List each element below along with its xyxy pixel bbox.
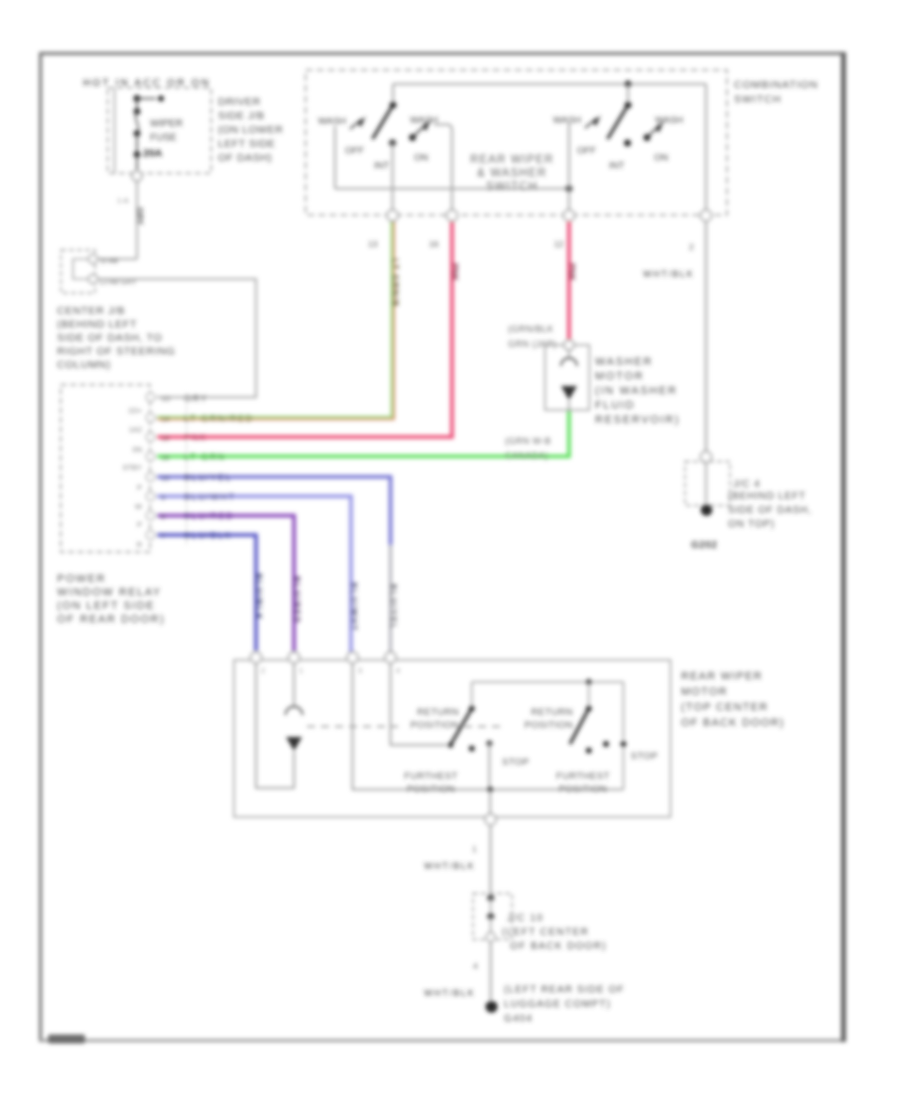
svg-text:G404: G404 <box>504 1014 533 1025</box>
svg-text:WASHER: WASHER <box>595 356 653 368</box>
label CENTER J/B <box>57 305 175 371</box>
svg-text:WASH: WASH <box>553 115 581 126</box>
svg-text:(LEFT CENTER: (LEFT CENTER <box>502 927 589 938</box>
svg-text:1A2: 1A2 <box>129 425 142 434</box>
svg-text:(ON LEFT SIDE: (ON LEFT SIDE <box>57 600 155 612</box>
node wash junction <box>566 185 573 192</box>
pin 12 <box>564 210 575 221</box>
svg-text:LT GRN/B: LT GRN/B <box>390 258 400 307</box>
svg-text:13: 13 <box>368 239 378 249</box>
svg-text:BLU/RED: BLU/RED <box>184 511 234 521</box>
svg-text:PNK: PNK <box>567 263 577 282</box>
svg-text:OF REAR DOOR): OF REAR DOOR) <box>57 614 165 626</box>
svg-text:LEFT SIDE: LEFT SIDE <box>218 138 275 150</box>
svg-text:GRN (JAP): GRN (JAP) <box>508 339 557 349</box>
label (GRN CANADA) bottom <box>505 436 551 461</box>
svg-text:STOP: STOP <box>502 757 529 768</box>
svg-text:POSITION: POSITION <box>407 784 456 795</box>
svg-text:1D: 1D <box>161 394 171 403</box>
switch S4 park (right) <box>570 682 626 790</box>
pin 3 (motor) <box>347 652 358 663</box>
svg-text:CANADA): CANADA) <box>505 451 548 461</box>
svg-text:OFF: OFF <box>577 146 596 157</box>
svg-text:PNK: PNK <box>450 263 460 282</box>
svg-text:SWITCH: SWITCH <box>486 181 538 193</box>
svg-text:4: 4 <box>473 961 478 971</box>
svg-text:R: R <box>137 540 143 549</box>
svg-text:1I-A8: 1I-A8 <box>100 256 118 265</box>
connector J/C 4 dashed <box>685 462 730 506</box>
svg-text:(TOP CENTER: (TOP CENTER <box>681 702 768 714</box>
svg-text:MOTOR: MOTOR <box>595 371 644 383</box>
svg-text:2: 2 <box>689 242 694 252</box>
svg-text:20A: 20A <box>143 148 163 160</box>
svg-text:STBY: STBY <box>122 463 142 472</box>
pin 16 <box>447 210 458 221</box>
svg-text:BLU/WHT: BLU/WHT <box>184 492 236 502</box>
svg-text:BLU/BLK: BLU/BLK <box>184 531 232 541</box>
svg-text:RETURN: RETURN <box>417 707 459 718</box>
fuse WIPER 20A <box>134 99 183 172</box>
label REAR WIPER MOTOR <box>681 671 785 730</box>
svg-text:POSITION: POSITION <box>410 720 459 731</box>
wire PNK to washer motor <box>567 221 577 341</box>
svg-text:FLUID: FLUID <box>595 400 635 412</box>
pin numbers <box>261 668 400 675</box>
svg-text:RIGHT OF STEERING: RIGHT OF STEERING <box>57 346 175 358</box>
svg-text:1D+: 1D+ <box>128 406 143 415</box>
svg-text:0N: 0N <box>132 445 142 454</box>
svg-text:BLU/WHT: BLU/WHT <box>349 582 359 632</box>
mechanical link dashes <box>307 726 506 728</box>
ground G202 <box>701 504 713 516</box>
svg-text:INT: INT <box>609 161 625 172</box>
svg-text:POWER: POWER <box>57 573 106 585</box>
wire LT GRN (washer motor return) <box>157 410 569 462</box>
svg-text:GRY: GRY <box>184 394 208 404</box>
svg-text:ON: ON <box>414 153 428 164</box>
wire wash rail <box>335 188 569 190</box>
wire BLU-YEL (to wiper motor pin 4) <box>157 473 399 655</box>
svg-text:WASH: WASH <box>318 116 346 127</box>
pin 2 <box>701 210 712 221</box>
label REAR WIPER & WASHER SWITCH <box>470 154 554 193</box>
wire WHT-BLK right side <box>643 221 706 452</box>
svg-text:OFF: OFF <box>345 146 364 157</box>
wire GRY from connector to J/B <box>97 279 256 397</box>
svg-text:OF BACK DOOR): OF BACK DOOR) <box>681 717 785 729</box>
svg-text:16: 16 <box>429 239 439 249</box>
wire BLU-RED (to wiper motor pin 2) <box>157 511 302 654</box>
switch S2 washer (right group) <box>553 84 683 212</box>
label COMBINATION SWITCH <box>734 79 818 106</box>
wire stop output <box>489 790 491 816</box>
svg-text:FURTHEST: FURTHEST <box>404 771 458 782</box>
svg-text:SIDE OF DASH,: SIDE OF DASH, <box>728 505 812 516</box>
svg-text:WHT/BLK: WHT/BLK <box>424 988 475 998</box>
svg-text:(ON LOWER: (ON LOWER <box>218 124 283 136</box>
svg-text:ON: ON <box>654 153 668 164</box>
label WASHER MOTOR <box>595 356 680 426</box>
svg-text:SWITCH: SWITCH <box>734 94 781 106</box>
pin 4 (motor) <box>385 652 396 663</box>
switch S1 wiper (left group) <box>318 84 452 212</box>
svg-text:BLU/YEL: BLU/YEL <box>389 584 399 631</box>
label ground location <box>504 985 625 1025</box>
label POWER WINDOW RELAY <box>57 573 165 626</box>
wire WHT-BLK to J/C 10 <box>424 825 491 893</box>
svg-text:BLU/BLK: BLU/BLK <box>254 573 264 621</box>
wire LT GRN-RED (to switch pin 13) <box>157 219 400 424</box>
svg-text:18: 18 <box>161 434 169 443</box>
svg-text:P: P <box>137 520 142 529</box>
svg-text:DRIVER: DRIVER <box>218 96 261 108</box>
svg-text:G202: G202 <box>691 540 717 551</box>
pin washer motor <box>564 340 574 350</box>
wire pin4 to park contact <box>391 662 448 745</box>
pin 2 (motor) <box>289 652 300 663</box>
motor M1 washer <box>561 349 577 412</box>
wire pin3 to stop rail <box>353 662 624 790</box>
svg-text:POSITION: POSITION <box>524 720 573 731</box>
wire row GRY labels <box>161 394 208 404</box>
pin 1 (motor) <box>251 652 262 663</box>
svg-text:WIPER: WIPER <box>150 119 183 130</box>
wire top rail <box>393 83 706 85</box>
svg-text:RETURN: RETURN <box>531 707 573 718</box>
svg-text:BLU/RED: BLU/RED <box>292 576 302 624</box>
wire BLU-BLK (to wiper motor pin 1) <box>157 531 264 652</box>
svg-text:4: 4 <box>396 668 400 675</box>
center J/B dashed box <box>61 385 150 552</box>
svg-text:& WASHER: & WASHER <box>477 168 547 180</box>
node park rail junction <box>586 679 592 685</box>
svg-text:(LEFT REAR SIDE OF: (LEFT REAR SIDE OF <box>504 985 625 996</box>
svg-text:OF BACK DOOR): OF BACK DOOR) <box>510 941 607 952</box>
J/B pins <box>146 393 155 539</box>
svg-text:14: 14 <box>161 415 169 424</box>
svg-text:9: 9 <box>161 493 165 502</box>
svg-text:RESERVOIR): RESERVOIR) <box>595 414 680 426</box>
connector strip line <box>186 393 188 545</box>
labels park switch <box>404 707 658 795</box>
svg-text:FURTHEST: FURTHEST <box>556 771 610 782</box>
svg-text:J/C 10: J/C 10 <box>507 913 544 924</box>
driver side J/B dashed box <box>108 88 212 174</box>
svg-text:(GRN/BLK: (GRN/BLK <box>508 324 554 334</box>
ground G404 <box>486 1001 498 1013</box>
svg-text:7: 7 <box>161 532 165 541</box>
svg-text:(IN WASHER: (IN WASHER <box>595 385 678 397</box>
svg-text:8: 8 <box>161 512 165 521</box>
pin motor output <box>485 814 496 825</box>
wire PNK (to switch pin 16) <box>157 219 460 443</box>
wire into ground <box>705 462 707 504</box>
node rail junction <box>625 81 632 88</box>
label J/C 10 <box>502 913 607 952</box>
svg-text:OF DASH): OF DASH) <box>218 152 272 164</box>
svg-text:WHT/BLK: WHT/BLK <box>424 861 475 871</box>
washer motor box <box>545 345 589 410</box>
rear wiper motor box <box>234 660 671 817</box>
wire BLU-WHT (to wiper motor pin 3) <box>157 492 359 654</box>
svg-text:P: P <box>137 483 142 492</box>
svg-text:MOTOR: MOTOR <box>681 686 728 698</box>
svg-text:12: 12 <box>554 239 564 249</box>
svg-text:INT: INT <box>374 161 390 172</box>
motor M2 rear wiper <box>256 662 303 788</box>
combination switch dashed box <box>306 70 727 215</box>
svg-text:10: 10 <box>161 474 169 483</box>
svg-text:COMBINATION: COMBINATION <box>734 79 818 91</box>
wire rail to pin 2 <box>705 84 707 212</box>
svg-text:J/C 4: J/C 4 <box>733 479 760 490</box>
svg-text:3: 3 <box>358 668 362 675</box>
svg-text:SIDE J/B: SIDE J/B <box>218 110 265 122</box>
label (GRN-BLK CANADA) top <box>508 324 557 349</box>
connector J/C 10 dashed <box>473 894 512 942</box>
svg-text:FUSE: FUSE <box>150 133 177 144</box>
svg-text:POSITION: POSITION <box>559 784 608 795</box>
pin (fuse output) <box>132 171 142 181</box>
node stop junction <box>487 787 493 793</box>
svg-text:GRY: GRY <box>135 207 145 225</box>
svg-text:WASH: WASH <box>410 115 438 126</box>
svg-text:WINDOW RELAY: WINDOW RELAY <box>57 587 162 599</box>
wire park top rail <box>472 681 624 683</box>
svg-text:PNK: PNK <box>184 433 207 443</box>
svg-text:16: 16 <box>161 453 169 462</box>
pin G202 connector <box>701 452 712 463</box>
svg-text:(BEHIND LEFT: (BEHIND LEFT <box>728 491 806 502</box>
wire fuse to IP connector <box>117 181 145 259</box>
wire WHT-BLK to ground <box>424 941 491 1002</box>
svg-text:LT GRN/RED: LT GRN/RED <box>184 414 254 424</box>
svg-text:REAR WIPER: REAR WIPER <box>681 671 763 683</box>
bus node with branch <box>133 95 164 102</box>
connector IP junction (dashed) <box>61 250 137 293</box>
J/B pin cavity labels <box>122 406 143 549</box>
svg-text:(GRN W-B: (GRN W-B <box>505 436 551 446</box>
label J/C 4 <box>728 479 812 530</box>
bottom-left id mark <box>48 1035 85 1044</box>
svg-text:BLU/YEL: BLU/YEL <box>184 473 232 483</box>
svg-text:STOP: STOP <box>631 751 658 762</box>
svg-text:WASH: WASH <box>655 115 683 126</box>
svg-text:COLUMN): COLUMN) <box>57 359 111 371</box>
svg-text:CENTER J/B: CENTER J/B <box>57 305 125 317</box>
svg-text:REAR WIPER: REAR WIPER <box>470 154 554 166</box>
svg-text:W: W <box>135 502 143 511</box>
svg-text:2: 2 <box>261 668 265 675</box>
svg-text:1-A: 1-A <box>117 196 129 205</box>
pin 13 <box>387 210 398 221</box>
svg-text:1: 1 <box>299 668 303 675</box>
svg-text:(BEHIND LEFT: (BEHIND LEFT <box>57 319 137 331</box>
svg-text:WHT/BLK: WHT/BLK <box>643 269 694 279</box>
svg-text:SIDE OF DASH, TO: SIDE OF DASH, TO <box>57 332 162 344</box>
svg-text:LT GRN: LT GRN <box>184 452 226 462</box>
svg-text:ON TOP): ON TOP) <box>728 519 775 530</box>
switch S3 park (left) <box>448 682 493 790</box>
svg-text:1: 1 <box>472 844 477 854</box>
svg-text:LUGGAGE COMPT): LUGGAGE COMPT) <box>504 999 611 1010</box>
label DRIVER SIDE J/B <box>218 96 283 164</box>
